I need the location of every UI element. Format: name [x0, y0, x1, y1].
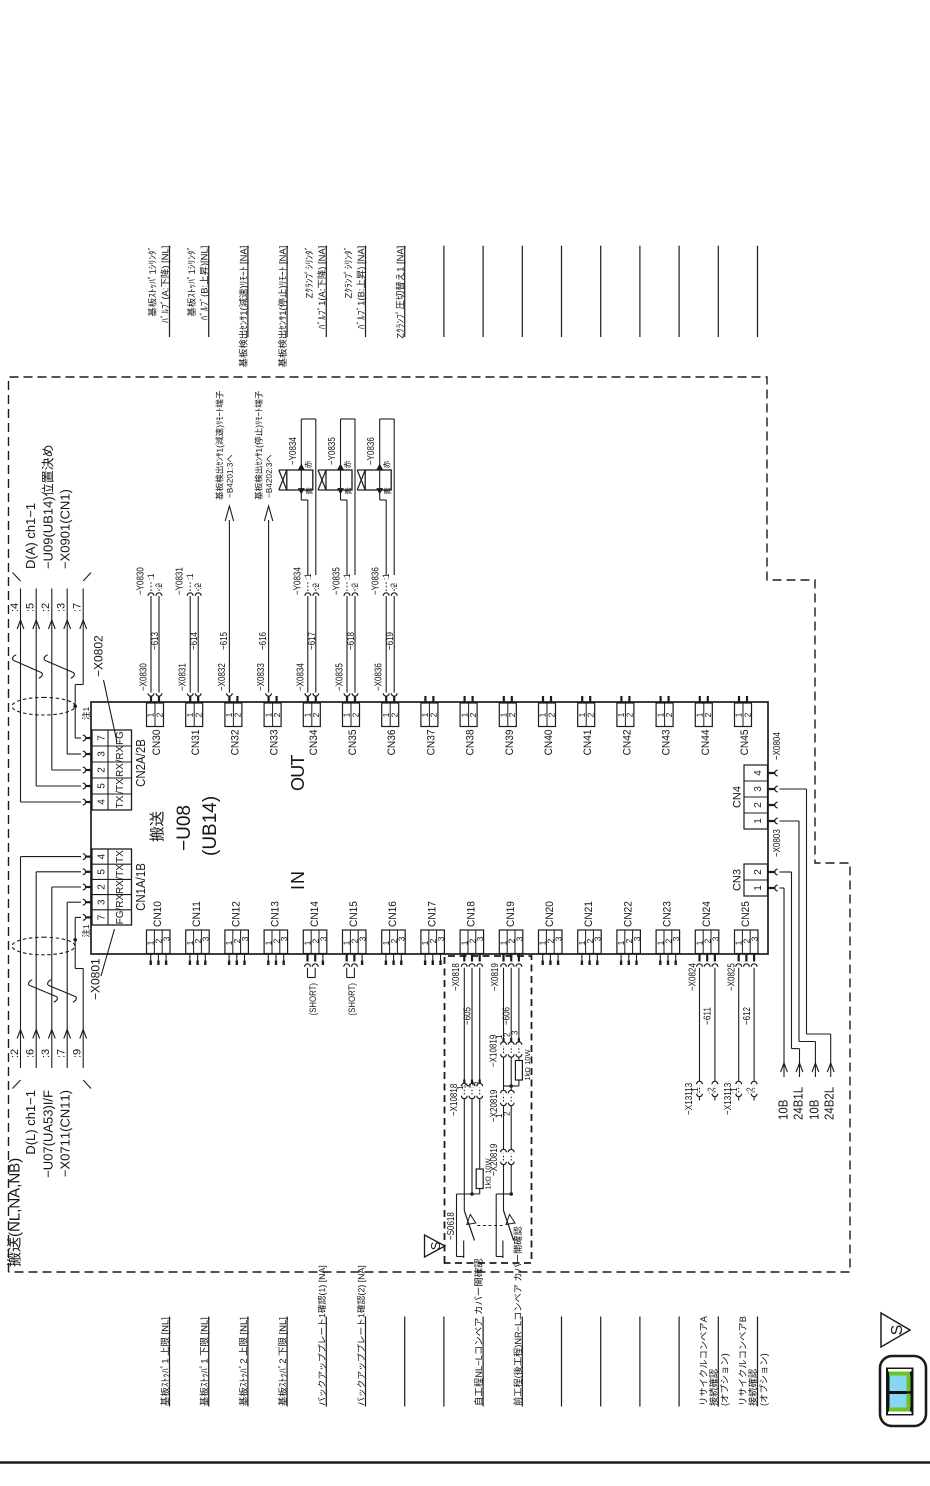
signal name line for CN42	[639, 246, 641, 337]
connector -X13113 of CN24	[697, 1081, 703, 1084]
svg-text:3: 3	[358, 936, 368, 941]
mechanical coupling dashed link of S0618	[477, 1225, 502, 1227]
svg-text:5: 5	[97, 783, 108, 789]
svg-text:2: 2	[272, 712, 282, 717]
svg-text:3: 3	[162, 936, 172, 941]
svg-text:−605: −605	[463, 1007, 474, 1025]
svg-text:CN25: CN25	[740, 901, 752, 927]
svg-text:S: S	[429, 1242, 443, 1250]
svg-text:TX: TX	[115, 795, 126, 808]
svg-text:(UB14): (UB14)	[200, 796, 221, 856]
terminal marks of Y0835	[338, 489, 344, 494]
note 注1 (right)	[82, 707, 90, 719]
svg-text:−X10818: −X10818	[449, 1083, 460, 1116]
svg-text:7: 7	[97, 735, 108, 741]
svg-text:CN3: CN3	[732, 869, 744, 891]
connector CN1A/1B pin contacts	[86, 916, 92, 918]
signal name line for CN19	[521, 1317, 523, 1407]
signal name line for CN34	[325, 246, 327, 337]
svg-text:3: 3	[240, 936, 250, 941]
connector CN30 pin contacts	[150, 696, 152, 703]
svg-text:−X20819: −X20819	[489, 1089, 500, 1122]
connector CN44 body	[695, 703, 712, 727]
svg-text:/TX: /TX	[115, 778, 126, 794]
power wire 10B from CN4 pin1	[780, 820, 800, 822]
svg-text:−X0831: −X0831	[178, 663, 189, 691]
connector CN34 body	[303, 703, 320, 727]
shield junction dot on cable screen	[73, 704, 77, 708]
svg-text:IN: IN	[288, 870, 308, 890]
svg-text:5: 5	[97, 869, 108, 875]
svg-text:CN42: CN42	[621, 730, 633, 756]
signal name line for CN23	[678, 1317, 680, 1407]
svg-text:−X0836: −X0836	[374, 663, 385, 691]
wires to -X20819	[503, 1058, 505, 1091]
connector CN18 body	[460, 930, 484, 954]
grouping bracket (left)	[13, 1080, 21, 1089]
connector CN39 pin contacts	[503, 696, 505, 703]
outer dashed boundary of unit group	[9, 377, 851, 1272]
svg-text::1: :1	[146, 574, 156, 580]
connector CN31 pin contacts	[189, 696, 191, 703]
svg-text:3: 3	[710, 936, 720, 941]
svg-text:2: 2	[742, 712, 752, 717]
connector CN45 pin contacts	[738, 696, 740, 703]
terminal marks of Y0834	[299, 489, 305, 494]
svg-text:−Y0831: −Y0831	[175, 567, 186, 595]
svg-text:CN4: CN4	[732, 786, 744, 808]
connector CN45 body	[735, 703, 752, 727]
wire loop to solenoid Y0835	[346, 500, 348, 575]
valve symbol for Y0835	[318, 470, 326, 490]
wires -X0819 pins 1,2,3	[503, 968, 505, 1042]
svg-text:CN31: CN31	[190, 730, 202, 756]
svg-text:CN13: CN13	[270, 901, 282, 927]
connector CN44 pin contacts	[699, 696, 701, 703]
svg-text:/RX: /RX	[115, 894, 126, 911]
svg-text::3: :3	[40, 1049, 52, 1058]
plug contacts to −Y0836	[383, 593, 389, 596]
connector CN38 body	[460, 703, 477, 727]
svg-text:(SHORT): (SHORT)	[347, 983, 358, 1016]
wire loop to solenoid Y0836	[385, 500, 387, 575]
wires −X0836 pins 1,2	[383, 693, 389, 696]
svg-text:CN18: CN18	[466, 901, 478, 927]
connector CN11 pin contacts	[189, 954, 191, 961]
svg-text::3: :3	[56, 603, 68, 612]
resistor 1k ohm 10W (CN19 branch)	[518, 1058, 520, 1061]
wire CN2A pin5 /TX	[36, 785, 81, 787]
connector CN39 body	[499, 703, 516, 727]
valve symbol for Y0834	[279, 470, 287, 490]
connector CN2A/2B pin contacts	[86, 801, 92, 803]
wire −X0832 pin 1 to remote terminal	[227, 693, 233, 696]
connector CN14 body	[303, 930, 327, 954]
signal name line for CN20	[561, 1317, 563, 1407]
svg-text:3: 3	[671, 936, 681, 941]
svg-text:−X0833: −X0833	[256, 663, 267, 691]
connector CN37 body	[421, 703, 438, 727]
svg-text:2: 2	[350, 712, 360, 717]
svg-text:2: 2	[753, 869, 764, 875]
wires −X0831 pins 1,2	[187, 693, 193, 696]
svg-text:2: 2	[468, 712, 478, 717]
connector CN33 pin contacts	[268, 696, 270, 703]
wires −X0830 pins 1,2	[148, 693, 154, 696]
svg-text:−615: −615	[219, 632, 230, 650]
safety symbol triangle S (inner)	[425, 1235, 446, 1257]
shorting loop on CN15 pins 1-2	[346, 968, 348, 978]
svg-text:CN2A/2B: CN2A/2B	[133, 739, 148, 787]
svg-text:−X0818: −X0818	[451, 963, 462, 991]
solenoid valve Y0836 coil box	[365, 470, 391, 490]
wire CN2A pin7 FG shield drain	[75, 737, 81, 739]
plug contacts to −Y0835	[344, 593, 350, 596]
connector CN22 body	[617, 930, 641, 954]
grouping bracket (right)	[13, 573, 21, 582]
svg-text::6: :6	[25, 1049, 37, 1058]
connector CN25 body	[735, 930, 759, 954]
svg-text:CN36: CN36	[386, 730, 398, 756]
cable screen dashed oval (left bundle)	[12, 937, 75, 955]
source text D(L) ch1-1 -U07(UA53) -X0711	[26, 1091, 38, 1154]
solenoid valve Y0834 coil box	[287, 470, 313, 490]
svg-text:3: 3	[632, 936, 642, 941]
svg-text:−Y0835: −Y0835	[327, 437, 338, 465]
svg-text:−606: −606	[502, 1007, 513, 1025]
wires −X0825 pins 1,3	[738, 968, 740, 1082]
wires to -X20819 pair 2	[503, 1106, 505, 1150]
svg-text:CN21: CN21	[583, 901, 595, 927]
svg-text:3: 3	[475, 936, 485, 941]
svg-text:/RX: /RX	[115, 745, 126, 762]
connector CN41 pin contacts	[581, 696, 583, 703]
svg-text:3: 3	[510, 1030, 519, 1035]
signal name line for CN21	[600, 1317, 602, 1407]
svg-text:CN23: CN23	[662, 901, 674, 927]
svg-text:CN22: CN22	[622, 901, 634, 927]
destination text D(A) ch1-1 -U09(UB14) -X0901	[26, 504, 38, 568]
svg-text:−618: −618	[346, 632, 357, 650]
wire CN2A pin2 RX	[52, 769, 81, 771]
svg-text:2: 2	[194, 712, 204, 717]
signal name line for CN30	[169, 246, 171, 337]
wire CN1A pin2 RX	[52, 886, 81, 888]
svg-text:3: 3	[471, 1081, 480, 1086]
svg-text::2: :2	[311, 583, 321, 589]
svg-text:4: 4	[97, 853, 108, 859]
svg-text:2: 2	[664, 712, 674, 717]
wire CN2A pin3 /RX	[67, 753, 81, 755]
svg-text:3: 3	[279, 936, 289, 941]
svg-text:CN14: CN14	[309, 901, 321, 927]
connector CN43 pin contacts	[659, 696, 661, 703]
svg-text:CN30: CN30	[151, 730, 163, 756]
svg-text:CN19: CN19	[505, 901, 517, 927]
svg-text:3: 3	[750, 936, 760, 941]
svg-text::2: :2	[350, 583, 360, 589]
connector CN32 pin contacts	[228, 696, 230, 703]
svg-text:2: 2	[233, 712, 243, 717]
svg-text::2: :2	[40, 603, 52, 612]
shorting loop on CN14 pins 1-2	[307, 968, 309, 978]
connector CN24 pin contacts	[698, 954, 700, 962]
wire loop to solenoid Y0834	[307, 500, 309, 575]
svg-text::7: :7	[56, 1049, 68, 1058]
manual book icon	[880, 1356, 926, 1426]
svg-text:−616: −616	[258, 632, 269, 650]
svg-text:CN17: CN17	[426, 901, 438, 927]
wire −X0833 pin 1 to remote terminal	[266, 693, 272, 696]
terminal color labels 赤 青 of Y0835	[344, 461, 351, 468]
signal name line for CN44	[717, 246, 719, 337]
svg-text:TX: TX	[115, 850, 126, 863]
svg-text:−X0825: −X0825	[727, 963, 738, 991]
signal name line for CN12	[247, 1317, 249, 1407]
svg-text:1: 1	[753, 818, 764, 824]
svg-text:−Y0834: −Y0834	[292, 567, 303, 595]
junction link and dot (CN19)	[504, 1085, 519, 1087]
svg-text:2: 2	[503, 1111, 512, 1116]
svg-text:−U08: −U08	[174, 805, 195, 851]
svg-text:−X0804: −X0804	[772, 732, 783, 760]
wires -X0818 pins 1,2,3	[463, 968, 465, 1084]
svg-text:CN38: CN38	[465, 730, 477, 756]
svg-text:−X0832: −X0832	[217, 663, 228, 691]
power wire 24B1L from CN3 pin2	[780, 871, 792, 873]
svg-text:−X20819: −X20819	[489, 1143, 500, 1176]
signal name line for CN11	[208, 1317, 210, 1407]
svg-text:CN15: CN15	[348, 901, 360, 927]
plug contacts to −Y0834	[305, 593, 311, 596]
connector CN42 pin contacts	[620, 696, 622, 703]
connector CN25 pin contacts	[738, 954, 740, 962]
wires to switch contact 2	[503, 1165, 505, 1211]
svg-text:CN11: CN11	[191, 901, 203, 927]
resistor 1k ohm 10W (CN18 branch)	[476, 1169, 483, 1189]
svg-text:−X0802: −X0802	[92, 635, 106, 677]
svg-text:4: 4	[753, 770, 764, 776]
connector CN19 pin contacts	[502, 954, 504, 962]
svg-text::2: :2	[746, 1087, 755, 1094]
connector CN32 body	[225, 703, 242, 727]
connector CN3 pin contacts	[768, 887, 775, 889]
svg-text:−S0618: −S0618	[446, 1212, 457, 1240]
safety symbol triangle S (page)	[881, 1313, 910, 1347]
svg-text:CN32: CN32	[229, 730, 241, 756]
signal name line for CN17	[443, 1317, 445, 1407]
wire CN1A pin5 /TX	[36, 871, 81, 873]
svg-text:CN33: CN33	[269, 730, 281, 756]
svg-text:OUT: OUT	[288, 755, 308, 791]
wires −X0835 pins 1,2	[344, 693, 350, 696]
svg-text:3: 3	[397, 936, 407, 941]
svg-text:−X13113: −X13113	[684, 1082, 695, 1115]
connector CN16 body	[382, 930, 406, 954]
svg-text:−Y0834: −Y0834	[288, 437, 299, 465]
svg-text:CN20: CN20	[544, 901, 556, 927]
connector CN15 pin contacts	[346, 954, 348, 962]
signal name line for CN43	[678, 246, 680, 337]
switch S0618 contact 2	[495, 1194, 497, 1257]
svg-text:−X0830: −X0830	[139, 663, 150, 691]
arrowheads to external unit U09	[17, 620, 24, 629]
signal name line for CN13	[286, 1317, 288, 1407]
svg-text:RX: RX	[115, 763, 126, 777]
svg-text:CN44: CN44	[700, 730, 712, 756]
plug contacts to −Y0831	[187, 593, 193, 596]
signal name line for CN38	[482, 246, 484, 337]
signal name line for CN35	[365, 246, 367, 337]
connector CN24 body	[695, 930, 719, 954]
svg-text:CN16: CN16	[387, 901, 399, 927]
svg-text:3: 3	[593, 936, 603, 941]
signal name line for CN39	[521, 246, 523, 337]
wire CN1A pin4 TX	[21, 856, 82, 858]
connector CN17 body	[421, 930, 445, 954]
connector CN10 pin contacts	[150, 954, 152, 961]
twisted pair break marks (right bundle)	[13, 655, 43, 678]
destination text -B4202:3	[255, 391, 264, 500]
svg-text::4: :4	[9, 603, 21, 612]
svg-text:CN45: CN45	[739, 730, 751, 756]
connector CN12 pin contacts	[228, 954, 230, 961]
signal name line for CN33	[286, 246, 288, 337]
connector CN35 pin contacts	[346, 696, 348, 703]
destination text -B4201:3	[215, 391, 224, 500]
signal name line for CN32	[247, 246, 249, 337]
connector -X13113 of CN25	[736, 1081, 742, 1084]
signal name line for CN10	[169, 1317, 171, 1407]
cable screen dashed oval (right bundle)	[12, 697, 75, 715]
svg-text:2: 2	[703, 712, 713, 717]
connector CN38 pin contacts	[464, 696, 466, 703]
signal name line for CN14	[325, 1317, 327, 1407]
svg-text:−X0801: −X0801	[89, 958, 103, 1000]
svg-text:2: 2	[390, 712, 400, 717]
connector -X20819 pair 2	[501, 1149, 507, 1152]
connector CN34 pin contacts	[307, 696, 309, 703]
connector CN13 pin contacts	[267, 954, 269, 961]
connector CN42 body	[617, 703, 634, 727]
power wire 24B2L from CN4 pin3	[780, 788, 807, 790]
signal name line for CN45	[757, 246, 759, 337]
terminal color labels 赤 青 of Y0836	[383, 461, 390, 468]
connector CN41 body	[578, 703, 595, 727]
connector CN17 pin contacts	[424, 954, 426, 961]
connector CN31 body	[186, 703, 203, 727]
svg-text:2: 2	[154, 712, 164, 717]
signal name line for CN24	[717, 1317, 719, 1407]
svg-text:−X0819: −X0819	[490, 963, 501, 991]
svg-text:/TX: /TX	[115, 864, 126, 880]
svg-text:2: 2	[546, 712, 556, 717]
connector CN13 body	[264, 930, 288, 954]
svg-text:−X0835: −X0835	[335, 663, 346, 691]
connector CN19 body	[499, 930, 523, 954]
svg-text::9: :9	[72, 1049, 84, 1058]
title 搬送(NL,NA,NB)	[7, 1159, 23, 1267]
connector CN12 body	[225, 930, 249, 954]
connector CN33 body	[264, 703, 281, 727]
svg-text:3: 3	[201, 936, 211, 941]
svg-text:2: 2	[507, 712, 517, 717]
connector CN21 pin contacts	[581, 954, 583, 961]
svg-text:3: 3	[97, 751, 108, 757]
connector CN4 pin contacts	[768, 820, 775, 822]
svg-text:1kΩ 10W: 1kΩ 10W	[523, 1049, 532, 1081]
svg-text:−X10819: −X10819	[489, 1034, 500, 1067]
svg-text:CN35: CN35	[347, 730, 359, 756]
connector CN4 body	[744, 765, 768, 829]
note 注1 (left)	[82, 925, 90, 937]
svg-text::2: :2	[706, 1087, 715, 1094]
wire CN1A pin7 FG shield drain	[75, 916, 81, 918]
svg-text:24B2L: 24B2L	[822, 1087, 837, 1120]
svg-text:10B: 10B	[776, 1100, 791, 1120]
signal name line for CN31	[208, 246, 210, 337]
svg-text:10B: 10B	[807, 1100, 822, 1120]
connector CN14 pin contacts	[306, 954, 308, 962]
svg-text:−614: −614	[189, 632, 200, 650]
connector CN18 pin contacts	[463, 954, 465, 962]
svg-text::1: :1	[185, 574, 195, 580]
svg-text:3: 3	[554, 936, 564, 941]
svg-text:CN24: CN24	[701, 901, 713, 927]
arrowheads from external unit U07	[17, 1030, 24, 1039]
terminal color labels 赤 青 of Y0834	[305, 461, 312, 468]
signal name line for CN15	[365, 1317, 367, 1407]
connector CN10 body	[147, 930, 171, 954]
signal name line for CN41	[600, 246, 602, 337]
svg-text:CN40: CN40	[543, 730, 555, 756]
svg-text::2: :2	[9, 1049, 21, 1058]
svg-text:2: 2	[97, 767, 108, 773]
wire CN1A pin3 /RX	[67, 901, 81, 903]
svg-text:−X0803: −X0803	[772, 829, 783, 857]
connector CN43 body	[656, 703, 673, 727]
svg-text:CN37: CN37	[425, 730, 437, 756]
svg-text::2: :2	[154, 583, 164, 589]
svg-text:CN10: CN10	[152, 901, 164, 927]
svg-text:−Y0830: −Y0830	[136, 567, 147, 595]
svg-text::2: :2	[193, 583, 203, 589]
solenoid valve Y0835 coil box	[326, 470, 352, 490]
junction link and dot (CN18)	[457, 1193, 480, 1195]
connector CN30 body	[147, 703, 164, 727]
signal name line for CN36	[404, 246, 406, 337]
signal name line for CN40	[561, 246, 563, 337]
valve symbol for Y0836	[357, 470, 365, 490]
connector CN20 pin contacts	[542, 954, 544, 961]
svg-text:2: 2	[586, 712, 596, 717]
shield junction dot on cable screen (left)	[73, 938, 77, 942]
svg-text:−Y0836: −Y0836	[371, 567, 382, 595]
power wire 10B from CN3 pin1	[780, 887, 785, 889]
connector CN20 body	[539, 930, 563, 954]
svg-text:24B1L: 24B1L	[791, 1087, 806, 1120]
wires −X0824 pins 1,3	[699, 968, 701, 1082]
connector CN23 pin contacts	[659, 954, 661, 961]
svg-text:2: 2	[311, 712, 321, 717]
connector CN3 body	[744, 864, 768, 896]
svg-text:−Y0836: −Y0836	[366, 437, 377, 465]
connector CN37 pin contacts	[424, 696, 426, 703]
svg-text:3: 3	[753, 786, 764, 792]
svg-text:CN12: CN12	[230, 901, 242, 927]
svg-text:3: 3	[97, 899, 108, 905]
svg-text:CN34: CN34	[308, 730, 320, 756]
